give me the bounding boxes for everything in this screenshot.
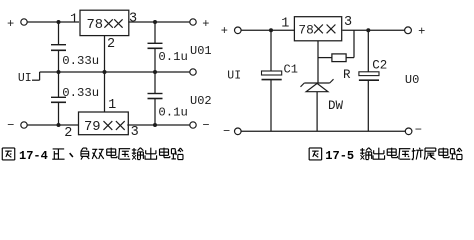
svg-text:0.1u: 0.1u <box>158 50 188 64</box>
svg-text:−: − <box>202 119 209 133</box>
svg-text:1: 1 <box>108 98 116 113</box>
svg-text:0.33u: 0.33u <box>62 86 99 100</box>
svg-text:C1: C1 <box>284 63 298 77</box>
svg-text:−: − <box>7 119 14 133</box>
svg-text:1: 1 <box>281 17 289 32</box>
svg-text:79: 79 <box>84 120 101 135</box>
svg-text:0.33u: 0.33u <box>62 54 99 68</box>
svg-text:−: − <box>223 124 230 138</box>
svg-text:0.1u: 0.1u <box>158 105 188 119</box>
svg-text:U0: U0 <box>405 73 419 87</box>
svg-text:U02: U02 <box>190 94 212 108</box>
svg-text:C2: C2 <box>372 59 387 73</box>
svg-text:+: + <box>221 24 228 38</box>
svg-text:3: 3 <box>131 125 139 140</box>
svg-text:17-5: 17-5 <box>325 149 354 163</box>
svg-text:DW: DW <box>328 99 344 113</box>
svg-text:R: R <box>343 68 351 82</box>
svg-text:3: 3 <box>129 11 137 26</box>
svg-text:2: 2 <box>107 37 115 52</box>
svg-text:UI: UI <box>18 72 32 85</box>
svg-text:+: + <box>7 17 14 31</box>
svg-text:+: + <box>202 17 209 31</box>
svg-text:78: 78 <box>87 18 104 33</box>
svg-text:3: 3 <box>344 15 352 30</box>
svg-text:1: 1 <box>70 13 78 28</box>
svg-text:78: 78 <box>298 23 313 38</box>
svg-text:+: + <box>418 24 425 38</box>
svg-text:2: 2 <box>64 126 72 141</box>
svg-text:U01: U01 <box>190 44 212 58</box>
svg-text:−: − <box>415 123 422 137</box>
svg-text:17-4: 17-4 <box>19 149 48 163</box>
svg-text:UI: UI <box>227 70 241 83</box>
